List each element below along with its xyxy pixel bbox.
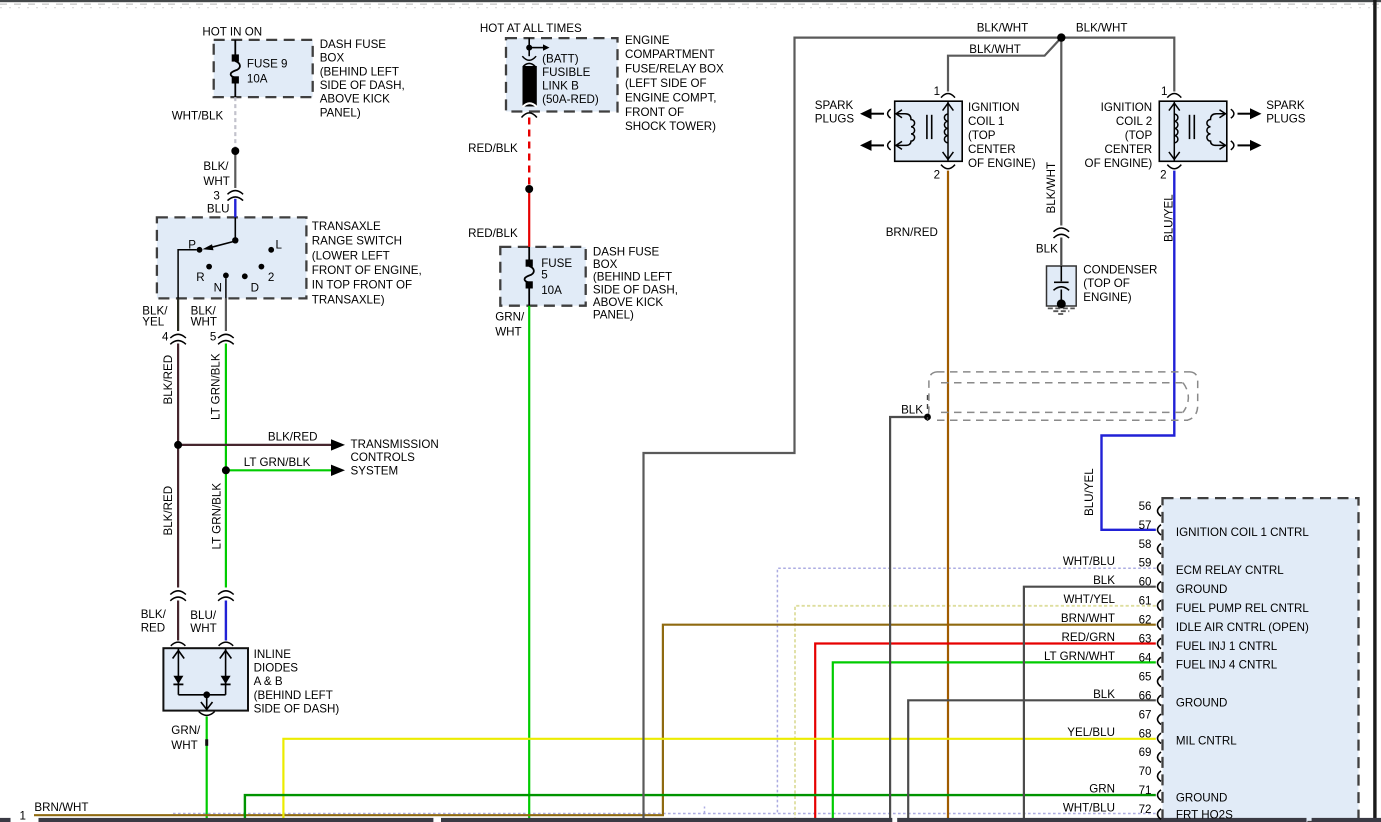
svg-text:(BEHIND LEFT: (BEHIND LEFT [320,65,399,78]
wire RED/BLK (dashed) fusible link to splice [528,118,530,186]
wire WHT/BLK (dashed) fuse9 to splice [234,97,236,147]
label 5 [210,331,216,344]
label FUSE 5 10A [541,257,572,297]
wire GRN/WHT diodes to bottom row [205,717,208,819]
label RED/BLK (lower) [468,227,518,240]
splice junction BLK/WHT (top) [1057,33,1065,41]
connector 3 [228,191,244,201]
label INLINE DIODES A &amp; B location [254,648,340,715]
condenser capacitor symbol [1054,266,1070,301]
shield drain junction BLK [924,395,931,421]
label BLK/WHT [191,305,217,329]
svg-text:GRN: GRN [1089,783,1115,796]
svg-text:1: 1 [934,85,940,98]
svg-text:PANEL): PANEL) [593,309,634,322]
svg-text:ABOVE KICK: ABOVE KICK [593,296,663,309]
label BLK/YEL [142,305,168,329]
svg-text:GRN/: GRN/ [495,311,525,324]
svg-text:MIL CNTRL: MIL CNTRL [1176,735,1237,748]
svg-text:FUEL INJ 4 CNTRL: FUEL INJ 4 CNTRL [1176,659,1278,672]
label 2 (coil 2 pin) [1160,169,1166,182]
ignition coil 2 pin 1 connector [1167,94,1181,98]
svg-text:BLU/YEL: BLU/YEL [1083,468,1096,516]
wire BLU/YEL coil2 pin2 to ECM pin 57 [1102,171,1175,530]
svg-text:ENGINE COMPT,: ENGINE COMPT, [625,91,716,104]
wire BLK/RED lower to diode box [177,601,179,641]
ignition coil 1 core [927,115,932,139]
svg-text:RANGE SWITCH: RANGE SWITCH [312,235,402,248]
svg-text:DIODES: DIODES [254,662,299,675]
ignition coil 1 primary winding [943,101,954,161]
svg-text:BLK/RED: BLK/RED [162,486,175,536]
svg-text:IGNITION COIL 1 CNTRL: IGNITION COIL 1 CNTRL [1176,526,1309,539]
wire BLK/RED connector 4 to connector [177,344,179,588]
svg-text:60: 60 [1139,576,1152,589]
label dash fuse box 1 location [320,38,405,120]
svg-text:LT GRN/BLK: LT GRN/BLK [211,483,224,550]
svg-text:INLINE: INLINE [254,648,292,661]
svg-text:WHT: WHT [190,622,216,635]
diode box pin connector A [171,642,186,646]
splice junction WHT/BLK-BLK/WHT [231,147,239,155]
svg-text:GRN/: GRN/ [171,724,201,737]
ECM pin 62 [1158,619,1162,629]
label GRN/WHT [171,724,201,752]
label LT GRN/BLK (vertical, lower) [211,483,224,550]
svg-text:TRANSAXLE: TRANSAXLE [312,220,381,233]
svg-text:FUSE/RELAY BOX: FUSE/RELAY BOX [625,63,724,76]
connector 4 [170,334,186,344]
wire WHT/YEL pin61 [795,606,1156,819]
svg-text:YEL: YEL [142,315,164,328]
svg-text:SHOCK TOWER): SHOCK TOWER) [625,120,716,133]
svg-text:(BEHIND LEFT: (BEHIND LEFT [254,689,333,702]
svg-text:BLK/: BLK/ [141,608,167,621]
svg-text:(BEHIND LEFT: (BEHIND LEFT [593,271,672,284]
label transaxle range switch location [312,220,422,307]
label GRN/WHT [495,311,525,339]
label SPARK PLUGS (coil 2) [1266,99,1306,126]
label BLK/RED [141,608,167,634]
ECM pin 60 [1158,582,1162,592]
label 1 (coil 2 pin) [1161,85,1167,98]
svg-text:BLK/WHT: BLK/WHT [1076,21,1128,34]
wire BLK connector to condenser [1060,238,1062,267]
wire BLK pin60 [1024,587,1156,819]
label TRANSMISSION CONTROLS SYSTEM [351,438,439,478]
ignition coil 1 pin 1 connector [941,94,955,98]
svg-text:CONDENSER: CONDENSER [1083,263,1157,276]
transaxle range switch box [157,217,307,298]
svg-text:SPARK: SPARK [1266,99,1305,112]
svg-text:ABOVE KICK: ABOVE KICK [320,93,390,106]
svg-text:64: 64 [1139,651,1152,664]
label BLK/WHT (vertical) [1045,162,1058,214]
svg-text:4: 4 [162,331,169,344]
svg-text:A & B: A & B [254,675,283,688]
spark plug arrows (coil 2) [1231,108,1262,151]
svg-text:IDLE AIR CNTRL (OPEN): IDLE AIR CNTRL (OPEN) [1176,621,1309,634]
fusible link B symbol [522,38,550,117]
svg-text:ECM RELAY CNTRL: ECM RELAY CNTRL [1176,564,1284,577]
condenser ground junction [1057,299,1066,308]
fuse F9 10A [231,40,240,97]
svg-text:1: 1 [1161,85,1167,98]
svg-text:(50A-RED): (50A-RED) [542,93,599,106]
svg-text:BLK/RED: BLK/RED [268,430,318,443]
label BLU/YEL (vertical, near ECM) [1083,468,1096,516]
svg-text:SIDE OF DASH,: SIDE OF DASH, [593,283,678,296]
engine compartment fuse/relay box [506,38,618,111]
dash fuse box (middle, FUSE 5) [500,247,585,306]
svg-text:56: 56 [1139,500,1152,513]
svg-text:(BATT): (BATT) [542,53,579,66]
condenser box [1047,266,1077,306]
svg-text:BLK: BLK [1093,574,1115,587]
diode B [220,648,232,695]
svg-text:2: 2 [268,271,274,284]
wire BLK pin66 [908,700,1156,818]
label BLK/WHT (top right of splice) [1076,21,1128,34]
svg-text:BLU/: BLU/ [190,609,217,622]
label (BATT) FUSIBLE LINK B (50A-RED) [542,53,599,106]
svg-text:WHT: WHT [171,739,197,752]
svg-text:BLK/WHT: BLK/WHT [969,43,1021,56]
wire BLU/WHT lower to diode box [225,601,227,641]
ECM pin 59 [1158,563,1162,573]
svg-text:63: 63 [1139,633,1152,646]
ECM pin 64 [1158,657,1162,667]
label BRN/WHT [34,801,88,814]
svg-text:BLU: BLU [207,202,230,215]
svg-text:RED/BLK: RED/BLK [468,142,518,155]
svg-text:5: 5 [210,331,216,344]
svg-text:BRN/RED: BRN/RED [886,226,938,239]
wire BLK/WHT fuse9 splice to connector 3 [234,151,236,188]
wire BLK/WHT main feed (top-left run down to bottom row) [644,38,1062,819]
label LT GRN/BLK (branch) [244,456,311,469]
svg-text:2: 2 [1160,169,1166,182]
svg-text:57: 57 [1139,519,1152,532]
junction BLK/RED branch [174,441,182,449]
ECM connector box [1163,498,1359,822]
svg-text:BLK/: BLK/ [203,160,229,173]
svg-text:PANEL): PANEL) [320,106,361,119]
svg-text:62: 62 [1139,614,1152,627]
label BLK/WHT (top left of splice) [977,21,1029,34]
diode A [173,648,185,695]
wire RED/GRN pin63 [815,644,1156,819]
svg-text:BOX: BOX [593,258,618,271]
ignition coil 1 secondary winding [895,110,915,150]
wire GRN pin71 [245,795,1156,818]
svg-text:GROUND: GROUND [1176,791,1228,804]
label BRN/RED [886,226,938,239]
svg-text:LT GRN/BLK: LT GRN/BLK [244,456,311,469]
svg-text:GROUND: GROUND [1176,697,1228,710]
svg-text:WHT/YEL: WHT/YEL [1063,593,1115,606]
ECM pin 69 [1158,752,1162,762]
wire BLK/WHT splice to ignition coil 1 pin 1 [948,38,1061,92]
svg-text:OF ENGINE): OF ENGINE) [968,157,1036,170]
svg-text:61: 61 [1139,595,1152,608]
svg-text:FUEL INJ 1 CNTRL: FUEL INJ 1 CNTRL [1176,640,1278,653]
ECM pin numbers [1139,500,1152,816]
svg-text:FUEL PUMP REL CNTRL: FUEL PUMP REL CNTRL [1176,602,1309,615]
svg-text:CENTER: CENTER [968,143,1016,156]
dash fuse box (left, FUSE 9) [214,40,313,97]
wire BLK shield drain to bottom row [890,417,927,819]
label BLK/RED (branch) [268,430,318,443]
wire BLK/WHT splice down to condenser connector [1060,38,1062,226]
svg-text:DASH FUSE: DASH FUSE [320,38,387,51]
svg-text:LT GRN/WHT: LT GRN/WHT [1044,650,1115,663]
ECM pin 68 [1158,733,1162,743]
wire LT GRN/BLK connector 5 to connector [225,344,227,588]
wire GRN/WHT from fuse 5 to bottom row [528,306,530,819]
ECM pin 61 [1158,600,1162,610]
spark plug arrows (coil 1) [860,108,891,151]
svg-text:BLK/RED: BLK/RED [162,355,175,405]
svg-text:WHT/BLU: WHT/BLU [1063,555,1115,568]
svg-text:(LEFT SIDE OF: (LEFT SIDE OF [625,77,707,90]
ECM pin 57 [1158,525,1162,535]
ignition coil 2 core [1190,115,1195,139]
ECM wire color labels [1044,555,1116,814]
ECM pin 67 [1158,714,1162,724]
svg-text:(TOP: (TOP [968,129,996,142]
label BLK (condenser wire) [1036,243,1058,256]
ECM pin 72 [1158,809,1162,819]
wire LT GRN/WHT pin64 [833,662,1156,818]
svg-text:PLUGS: PLUGS [815,113,855,126]
ECM pin 70 [1158,771,1162,781]
svg-text:1: 1 [20,810,26,822]
svg-text:WHT: WHT [191,315,217,328]
ECM pin 65 [1158,676,1162,686]
svg-text:OF ENGINE): OF ENGINE) [1085,157,1153,170]
svg-text:R: R [196,271,204,284]
svg-text:L: L [276,239,283,252]
ECM pin function labels [1176,526,1309,822]
bottom connector row (cut off at page edge) [0,818,1381,822]
label BLK/RED (vertical, upper) [162,355,175,405]
svg-text:BLK: BLK [1093,688,1115,701]
wire YEL/BLU pin68 [283,739,1155,819]
ECM pin 56 [1158,506,1162,516]
splice junction RED/BLK [525,185,533,193]
ignition coil 1 box [895,101,963,161]
label 1 (coil 1 pin) [934,85,940,98]
wire BLU splice to transaxle switch [234,199,236,218]
svg-text:10A: 10A [541,284,562,297]
svg-text:BLK: BLK [901,404,923,417]
svg-text:BRN/WHT: BRN/WHT [34,801,88,814]
svg-text:BLK/WHT: BLK/WHT [1045,162,1058,214]
ECM pin 58 [1158,544,1162,554]
svg-text:59: 59 [1139,557,1152,570]
svg-text:IGNITION: IGNITION [968,101,1020,114]
label LT GRN/BLK (vertical, upper) [210,353,223,420]
label 4 [162,331,169,344]
svg-text:WHT: WHT [203,175,229,188]
wire RED/BLK splice to fuse 5 [528,189,530,247]
diode box pin connector B [219,642,234,646]
svg-text:SPARK: SPARK [815,99,854,112]
wire BRN/WHT pin62 [34,625,1156,816]
shielding (dashed capsule) [928,372,1198,420]
label SPARK PLUGS (coil 1) [815,99,855,126]
svg-text:65: 65 [1139,670,1152,683]
diode box bottom connector [199,712,215,716]
svg-text:2: 2 [934,169,940,182]
svg-text:WHT/BLK: WHT/BLK [172,110,224,123]
svg-text:BLU/YEL: BLU/YEL [1162,194,1175,242]
svg-text:BLK/WHT: BLK/WHT [977,21,1029,34]
wire BLK/RED branch to transmission controls [178,439,345,450]
svg-text:71: 71 [1139,784,1152,797]
ECM pin 66 [1158,695,1162,705]
svg-text:LINK B: LINK B [542,79,579,92]
svg-text:WHT: WHT [495,325,521,338]
svg-text:67: 67 [1139,708,1152,721]
wire WHT/BLU pin59 [173,568,1156,813]
svg-text:N: N [214,281,222,294]
svg-text:5: 5 [541,269,547,282]
svg-text:SIDE OF DASH,: SIDE OF DASH, [320,79,405,92]
connector 5 [218,334,234,344]
svg-text:GROUND: GROUND [1176,583,1228,596]
svg-text:PLUGS: PLUGS [1266,113,1306,126]
label 3 [213,189,219,202]
label WHT/BLK [172,110,224,123]
ECM pin 63 [1158,638,1162,648]
svg-text:HOT AT ALL TIMES: HOT AT ALL TIMES [480,22,582,35]
svg-text:SIDE OF DASH): SIDE OF DASH) [254,702,340,715]
svg-text:70: 70 [1139,765,1152,778]
svg-text:BRN/WHT: BRN/WHT [1061,612,1115,625]
svg-text:YEL/BLU: YEL/BLU [1067,726,1115,739]
svg-text:TRANSMISSION: TRANSMISSION [351,438,439,451]
svg-text:66: 66 [1139,689,1152,702]
label 2 (coil 1 pin) [934,169,940,182]
label 1 [20,810,26,822]
svg-text:(LOWER LEFT: (LOWER LEFT [312,249,390,262]
labels P R N D 2 L (switch positions) [188,239,282,295]
svg-text:CONTROLS: CONTROLS [351,451,416,464]
svg-text:FUSE 9: FUSE 9 [247,58,288,71]
diode common bus and output pin [178,691,225,709]
svg-text:RED: RED [141,622,165,635]
wire BLK/WHT switch to connector 5 [225,298,227,331]
svg-text:DASH FUSE: DASH FUSE [593,246,660,259]
svg-text:IN TOP FRONT OF: IN TOP FRONT OF [312,279,412,292]
connector BLU/WHT [218,591,234,601]
svg-text:LT GRN/BLK: LT GRN/BLK [210,353,223,420]
junction LT GRN/BLK branch [222,466,230,474]
svg-text:ENGINE): ENGINE) [1083,291,1131,304]
svg-text:D: D [251,281,259,294]
label BLU/YEL (vertical, coil 2) [1162,194,1175,242]
wire BLK/WHT splice to ignition coil 2 pin 1 [1061,38,1174,92]
svg-text:RED/GRN: RED/GRN [1062,631,1115,644]
svg-text:(TOP: (TOP [1125,129,1153,142]
svg-text:WHT/BLU: WHT/BLU [1063,802,1115,815]
svg-text:58: 58 [1139,538,1152,551]
svg-text:10A: 10A [247,73,268,86]
label CONDENSER location [1083,263,1157,304]
svg-text:FUSIBLE: FUSIBLE [542,66,591,79]
inline diodes box [163,648,248,710]
label IGNITION COIL 1 location [968,101,1036,170]
fuse F5 10A [525,247,534,306]
ECM pin 71 [1158,790,1162,800]
svg-text:BLK: BLK [1036,243,1058,256]
svg-text:72: 72 [1139,803,1152,816]
svg-text:COIL 1: COIL 1 [968,115,1004,128]
svg-text:COMPARTMENT: COMPARTMENT [625,48,715,61]
svg-text:P: P [188,239,196,252]
label engine compartment fuse/relay box location [625,34,724,133]
ignition coil 2 box [1159,101,1227,161]
svg-text:FRT HO2S: FRT HO2S [1176,809,1233,822]
wire BRN/RED coil1 pin2 to bottom row [947,171,949,819]
svg-text:HOT IN ON: HOT IN ON [202,26,262,39]
wire LT GRN/BLK branch to transmission controls [226,465,345,476]
svg-text:69: 69 [1139,746,1152,759]
svg-text:COIL 2: COIL 2 [1116,115,1152,128]
label BLU [207,202,230,215]
label BLK (shield drain) [901,404,923,417]
label BLK/WHT [203,160,229,188]
svg-text:68: 68 [1139,727,1152,740]
svg-text:FRONT OF: FRONT OF [625,106,684,119]
ignition coil 2 primary winding [1169,101,1180,161]
wire BLK/YEL switch to connector 4 [177,298,179,331]
svg-text:RED/BLK: RED/BLK [468,227,518,240]
label IGNITION COIL 2 location [1085,101,1153,170]
label dash fuse box 2 location [593,246,678,322]
svg-text:SYSTEM: SYSTEM [351,465,399,478]
ignition coil 2 pin 2 connector [1167,165,1181,169]
label BLU/WHT [190,609,217,635]
connector BLK/RED to BLK/RED [170,591,186,601]
svg-text:BOX: BOX [320,52,345,65]
svg-text:ENGINE: ENGINE [625,34,670,47]
label HOT AT ALL TIMES [480,22,582,35]
svg-text:3: 3 [213,189,219,202]
label BLK/WHT (coil 1 branch) [969,43,1021,56]
svg-text:FRONT OF ENGINE,: FRONT OF ENGINE, [312,264,422,277]
ground symbol [1048,308,1075,314]
transaxle range switch contacts and arm [178,217,274,298]
ignition coil 1 pin 2 connector [941,165,955,169]
label BLK/RED (vertical, lower) [162,486,175,536]
label RED/BLK (upper) [468,142,518,155]
ignition coil 2 secondary winding [1207,110,1227,150]
connector on condenser wire [1054,228,1070,238]
svg-text:IGNITION: IGNITION [1101,101,1153,114]
svg-text:(TOP OF: (TOP OF [1083,277,1130,290]
label FUSE 9 10A [247,58,288,86]
svg-text:CENTER: CENTER [1105,143,1153,156]
label HOT IN ON [202,26,262,39]
svg-text:TRANSAXLE): TRANSAXLE) [312,293,385,306]
